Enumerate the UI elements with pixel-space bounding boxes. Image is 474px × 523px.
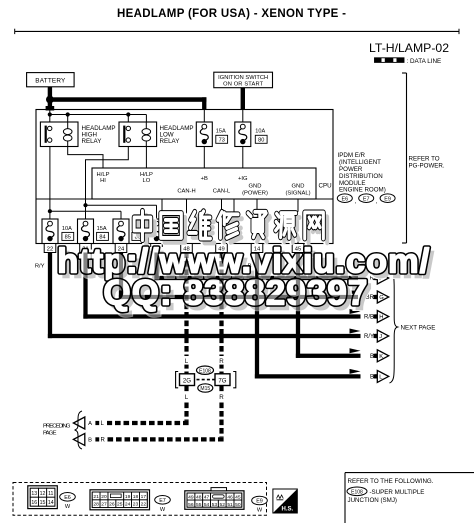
svg-text:B: B (370, 354, 374, 360)
svg-text:LT-H/LAMP-02: LT-H/LAMP-02 (369, 41, 449, 55)
svg-text:LO: LO (143, 178, 151, 184)
svg-text:JUNCTION (SMJ): JUNCTION (SMJ) (348, 497, 398, 504)
svg-text:51: 51 (227, 502, 233, 508)
svg-text:13: 13 (31, 491, 37, 497)
svg-text:L: L (185, 394, 189, 401)
svg-text:R: R (101, 438, 106, 444)
svg-text:E108: E108 (351, 490, 363, 496)
svg-text:14: 14 (48, 500, 54, 506)
svg-text:NEXT PAGE: NEXT PAGE (401, 325, 436, 332)
svg-text:73: 73 (219, 138, 225, 144)
svg-text:84: 84 (99, 235, 105, 241)
svg-text:RELAY: RELAY (82, 138, 102, 145)
svg-text:R/Y: R/Y (364, 334, 374, 340)
svg-text:23: 23 (133, 502, 139, 508)
svg-text:+B: +B (201, 176, 208, 182)
svg-text:H/LP: H/LP (97, 172, 110, 178)
svg-text:REFER TO THE FOLLOWING.: REFER TO THE FOLLOWING. (348, 478, 434, 485)
svg-text:7G: 7G (218, 377, 226, 384)
svg-text:K: K (379, 354, 383, 360)
svg-text:HEADLAMP (FOR USA) - XENON TYP: HEADLAMP (FOR USA) - XENON TYPE - (117, 8, 346, 20)
svg-text:GND: GND (292, 184, 305, 190)
svg-text:E6: E6 (64, 495, 71, 501)
svg-text:(SIGNAL): (SIGNAL) (285, 191, 310, 197)
svg-text:12: 12 (40, 491, 46, 497)
svg-text:+IG: +IG (238, 176, 248, 182)
svg-text:-SUPER MULTIPLE: -SUPER MULTIPLE (370, 489, 425, 496)
svg-text:CAN-L: CAN-L (213, 189, 231, 195)
svg-text:53: 53 (212, 502, 218, 508)
svg-text:IGNITION SWITCH: IGNITION SWITCH (218, 75, 268, 81)
svg-text:80: 80 (258, 138, 264, 144)
svg-text:L: L (185, 358, 189, 365)
svg-text:R: R (219, 358, 224, 365)
svg-text:B: B (88, 438, 92, 444)
svg-text:54: 54 (204, 502, 210, 508)
svg-text:W: W (160, 507, 166, 513)
svg-text:15: 15 (40, 500, 46, 506)
svg-text:55: 55 (196, 502, 202, 508)
svg-text:B: B (370, 375, 374, 381)
svg-text:10A: 10A (62, 226, 72, 232)
svg-text:26: 26 (109, 502, 115, 508)
svg-text:10A: 10A (255, 129, 265, 135)
svg-text:E108: E108 (199, 368, 211, 374)
svg-text:H.S.: H.S. (282, 507, 294, 513)
svg-text:GND: GND (249, 184, 262, 190)
svg-text:22: 22 (141, 502, 147, 508)
svg-text:20: 20 (101, 494, 107, 500)
svg-text:CAN-H: CAN-H (177, 189, 195, 195)
svg-text:56: 56 (188, 502, 194, 508)
svg-text:H: H (379, 315, 383, 321)
svg-text:E7: E7 (363, 196, 370, 202)
svg-text:PRECEDING: PRECEDING (43, 424, 71, 430)
svg-text:18: 18 (133, 494, 139, 500)
svg-text:R/Y: R/Y (35, 264, 45, 270)
svg-text:21: 21 (93, 494, 99, 500)
svg-text:15A: 15A (97, 226, 107, 232)
svg-text:BATTERY: BATTERY (35, 77, 66, 84)
svg-text:28: 28 (93, 502, 99, 508)
svg-text:22: 22 (47, 247, 53, 253)
svg-text:CPU: CPU (319, 183, 332, 190)
svg-text:11: 11 (48, 491, 53, 497)
svg-text:(POWER): (POWER) (242, 191, 268, 197)
svg-text:16: 16 (31, 500, 37, 506)
svg-text:: DATA LINE: : DATA LINE (407, 58, 442, 65)
svg-text:2G: 2G (183, 377, 191, 384)
svg-text:H/LP: H/LP (140, 172, 153, 178)
svg-text:E7: E7 (159, 498, 166, 504)
svg-text:27: 27 (101, 502, 107, 508)
svg-text:52: 52 (220, 502, 226, 508)
svg-text:RELAY: RELAY (160, 138, 180, 145)
svg-text:W: W (65, 504, 71, 510)
svg-text:R: R (219, 394, 224, 401)
svg-text:PAGE: PAGE (43, 431, 57, 437)
svg-text:ENGINE ROOM): ENGINE ROOM) (339, 187, 386, 194)
svg-text:HI: HI (100, 178, 106, 184)
svg-text:50: 50 (235, 502, 241, 508)
svg-text:G: G (379, 295, 384, 301)
svg-text:24: 24 (125, 502, 131, 508)
svg-text:19: 19 (125, 494, 131, 500)
svg-text:W: W (257, 508, 263, 514)
svg-text:E6: E6 (342, 196, 349, 202)
svg-text:17: 17 (141, 494, 147, 500)
svg-text:M15: M15 (200, 386, 210, 392)
svg-text:J: J (379, 334, 382, 340)
svg-text:15A: 15A (216, 129, 226, 135)
svg-text:E9: E9 (384, 196, 391, 202)
svg-text:85: 85 (65, 235, 71, 241)
svg-text:ON OR START: ON OR START (223, 81, 264, 87)
svg-text:PG-POWER.: PG-POWER. (409, 163, 445, 170)
svg-text:REFER TO: REFER TO (409, 156, 440, 163)
svg-text:E9: E9 (256, 499, 263, 505)
svg-text:A: A (88, 421, 92, 427)
svg-text:25: 25 (117, 502, 123, 508)
